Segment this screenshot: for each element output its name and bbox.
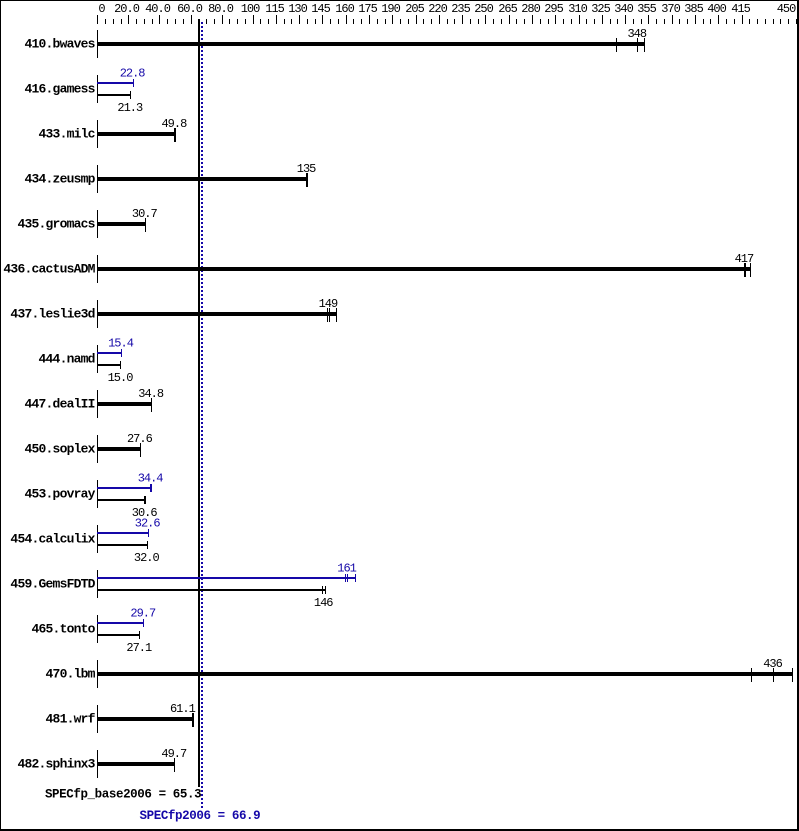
- 410.bwaves axis start tick: [97, 30, 98, 58]
- 410.bwaves run tick: [616, 38, 617, 52]
- 459.GemsFDTD base run tick: [322, 586, 323, 594]
- 454.calculix base run tick: [147, 541, 148, 549]
- svg-text:32.6: 32.6: [135, 516, 161, 530]
- 416.gamess base run tick: [130, 91, 131, 99]
- svg-text:34.4: 34.4: [138, 471, 164, 485]
- 434.zeusmp base bar: [97, 177, 308, 181]
- 459.GemsFDTD base bar: [97, 589, 326, 591]
- 433.milc axis start tick: [97, 120, 98, 148]
- 447.dealII base bar: [97, 402, 152, 406]
- 447.dealII run tick: [151, 398, 152, 412]
- 410.bwaves base bar: [97, 42, 645, 46]
- svg-text:450: 450: [777, 2, 796, 16]
- 454.calculix axis start tick: [97, 525, 98, 553]
- 437.leslie3d run tick: [336, 308, 337, 322]
- svg-text:205: 205: [405, 2, 424, 16]
- svg-text:115: 115: [265, 2, 284, 16]
- svg-text:325: 325: [591, 2, 610, 16]
- 465.tonto peak bar: [97, 622, 144, 624]
- 436.cactusADM base bar: [97, 267, 751, 271]
- svg-text:465.tonto: 465.tonto: [31, 622, 95, 637]
- svg-text:416.gamess: 416.gamess: [24, 82, 95, 97]
- svg-text:250: 250: [474, 2, 493, 16]
- 416.gamess axis start tick: [97, 75, 98, 103]
- svg-text:130: 130: [288, 2, 307, 16]
- 437.leslie3d run tick: [327, 308, 328, 322]
- 459.GemsFDTD axis start tick: [97, 570, 98, 598]
- 453.povray peak bar: [97, 487, 152, 489]
- svg-text:20.0: 20.0: [114, 2, 140, 16]
- 434.zeusmp run tick: [306, 173, 308, 187]
- 470.lbm run tick: [773, 668, 774, 682]
- 459.GemsFDTD peak run tick: [345, 574, 346, 582]
- svg-text:453.povray: 453.povray: [24, 487, 95, 502]
- 481.wrf base bar: [97, 717, 194, 721]
- svg-text:436.cactusADM: 436.cactusADM: [3, 262, 95, 277]
- 453.povray base bar: [97, 499, 146, 501]
- 453.povray peak run tick: [150, 484, 152, 492]
- 481.wrf axis start tick: [97, 705, 98, 733]
- svg-text:100: 100: [241, 2, 260, 16]
- 454.calculix base bar: [97, 544, 148, 546]
- svg-text:433.milc: 433.milc: [39, 127, 96, 142]
- border top: [0, 0, 799, 1]
- 436.cactusADM axis start tick: [97, 255, 98, 283]
- svg-text:444.namd: 444.namd: [39, 352, 95, 367]
- svg-text:60.0: 60.0: [177, 2, 203, 16]
- svg-text:49.7: 49.7: [161, 747, 187, 761]
- 465.tonto base run tick: [139, 631, 140, 639]
- reference line base 65.3 (solid black): [198, 19, 200, 787]
- svg-text:27.1: 27.1: [126, 641, 152, 655]
- svg-text:415: 415: [731, 2, 750, 16]
- svg-text:49.8: 49.8: [161, 117, 187, 131]
- 470.lbm run tick: [751, 668, 752, 682]
- svg-text:27.6: 27.6: [127, 432, 153, 446]
- 482.sphinx3 axis start tick: [97, 750, 98, 778]
- reference line peak 66.9 (dotted blue): [201, 22, 203, 808]
- svg-text:161: 161: [337, 561, 356, 575]
- svg-text:435.gromacs: 435.gromacs: [17, 217, 95, 232]
- svg-text:61.1: 61.1: [170, 702, 196, 716]
- svg-text:470.lbm: 470.lbm: [46, 667, 96, 682]
- svg-text:385: 385: [684, 2, 703, 16]
- svg-text:340: 340: [614, 2, 633, 16]
- svg-text:447.dealII: 447.dealII: [24, 397, 94, 412]
- svg-text:29.7: 29.7: [130, 606, 156, 620]
- 436.cactusADM run tick: [744, 263, 746, 277]
- svg-text:149: 149: [319, 297, 338, 311]
- 435.gromacs axis start tick: [97, 210, 98, 238]
- 450.soplex run tick: [140, 443, 141, 457]
- svg-text:32.0: 32.0: [134, 551, 160, 565]
- svg-text:220: 220: [428, 2, 447, 16]
- 470.lbm run tick: [792, 668, 793, 682]
- 482.sphinx3 run tick: [174, 758, 175, 772]
- 416.gamess peak run tick: [133, 79, 134, 87]
- svg-text:370: 370: [661, 2, 680, 16]
- 410.bwaves run tick: [637, 38, 638, 52]
- 459.GemsFDTD base run tick: [325, 586, 326, 594]
- svg-text:175: 175: [358, 2, 377, 16]
- 437.leslie3d run tick: [329, 308, 330, 322]
- svg-text:15.4: 15.4: [108, 336, 134, 350]
- 444.namd peak run tick: [121, 349, 122, 357]
- 465.tonto base bar: [97, 634, 140, 636]
- svg-text:SPECfp_base2006 = 65.3: SPECfp_base2006 = 65.3: [45, 787, 201, 801]
- border right: [797, 0, 799, 831]
- 454.calculix peak bar: [97, 532, 149, 534]
- svg-text:450.soplex: 450.soplex: [24, 442, 95, 457]
- 450.soplex base bar: [97, 447, 141, 451]
- svg-text:21.3: 21.3: [117, 101, 143, 115]
- svg-text:190: 190: [381, 2, 400, 16]
- 459.GemsFDTD peak bar: [97, 577, 356, 579]
- 450.soplex axis start tick: [97, 435, 98, 463]
- svg-text:434.zeusmp: 434.zeusmp: [24, 172, 95, 187]
- svg-text:482.sphinx3: 482.sphinx3: [17, 757, 95, 772]
- 465.tonto axis start tick: [97, 615, 98, 643]
- svg-text:146: 146: [314, 596, 333, 610]
- svg-text:295: 295: [544, 2, 563, 16]
- svg-text:160: 160: [335, 2, 354, 16]
- border left: [0, 0, 1, 831]
- svg-text:310: 310: [568, 2, 587, 16]
- 435.gromacs base bar: [97, 222, 146, 226]
- svg-text:436: 436: [763, 657, 782, 671]
- 459.GemsFDTD peak run tick: [347, 574, 348, 582]
- svg-text:0: 0: [98, 2, 105, 16]
- svg-text:34.8: 34.8: [138, 387, 164, 401]
- 454.calculix peak run tick: [148, 529, 149, 537]
- svg-text:437.leslie3d: 437.leslie3d: [10, 307, 94, 322]
- svg-text:40.0: 40.0: [145, 2, 171, 16]
- axis ruler ticks: [97, 15, 98, 24]
- svg-text:265: 265: [498, 2, 517, 16]
- border bottom: [0, 829, 799, 831]
- 444.namd base run tick: [120, 361, 121, 369]
- svg-text:348: 348: [627, 27, 646, 41]
- 481.wrf run tick: [192, 713, 194, 727]
- 434.zeusmp axis start tick: [97, 165, 98, 193]
- 410.bwaves run tick: [644, 38, 645, 52]
- 444.namd base bar: [97, 364, 121, 366]
- 453.povray axis start tick: [97, 480, 98, 508]
- 447.dealII axis start tick: [97, 390, 98, 418]
- 444.namd axis start tick: [97, 345, 98, 373]
- 444.namd peak bar: [97, 352, 122, 354]
- svg-text:280: 280: [521, 2, 540, 16]
- svg-text:355: 355: [637, 2, 656, 16]
- 437.leslie3d base bar: [97, 312, 337, 316]
- svg-text:459.GemsFDTD: 459.GemsFDTD: [10, 577, 95, 592]
- svg-text:410.bwaves: 410.bwaves: [24, 37, 95, 52]
- svg-text:135: 135: [297, 162, 316, 176]
- 465.tonto peak run tick: [143, 619, 144, 627]
- 416.gamess base bar: [97, 94, 131, 96]
- svg-text:417: 417: [735, 252, 754, 266]
- svg-text:481.wrf: 481.wrf: [46, 712, 96, 727]
- svg-text:22.8: 22.8: [120, 66, 146, 80]
- 433.milc run tick: [174, 128, 176, 142]
- 470.lbm base bar: [97, 672, 793, 676]
- 433.milc base bar: [97, 132, 176, 136]
- svg-text:80.0: 80.0: [208, 2, 234, 16]
- svg-text:15.0: 15.0: [108, 371, 134, 385]
- svg-text:454.calculix: 454.calculix: [10, 532, 95, 547]
- 459.GemsFDTD peak run tick: [355, 574, 356, 582]
- 482.sphinx3 base bar: [97, 762, 175, 766]
- 453.povray base run tick: [144, 496, 146, 504]
- svg-text:235: 235: [451, 2, 470, 16]
- 416.gamess peak bar: [97, 82, 134, 84]
- 437.leslie3d axis start tick: [97, 300, 98, 328]
- 436.cactusADM run tick: [750, 263, 751, 277]
- svg-text:SPECfp2006 = 66.9: SPECfp2006 = 66.9: [140, 809, 261, 823]
- 435.gromacs run tick: [145, 218, 146, 232]
- svg-text:30.7: 30.7: [132, 207, 158, 221]
- svg-text:400: 400: [707, 2, 726, 16]
- 470.lbm axis start tick: [97, 660, 98, 688]
- svg-text:145: 145: [311, 2, 330, 16]
